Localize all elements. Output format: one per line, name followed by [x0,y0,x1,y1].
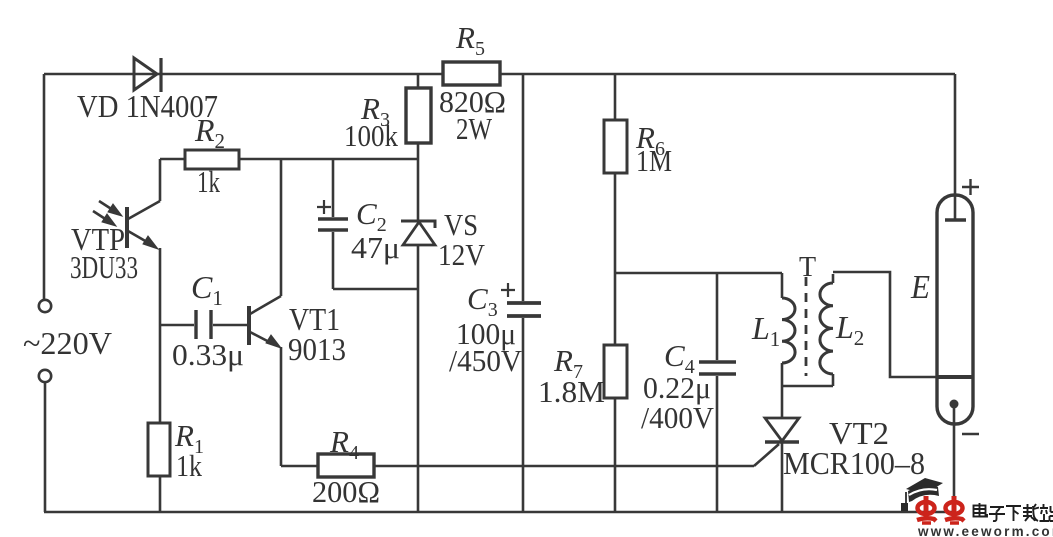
wire VTP collector to R2 [159,159,162,201]
label plus C2 [317,200,331,214]
wire L2 top to lamp [833,272,937,377]
svg-text:9013: 9013 [288,331,346,367]
label C3 [467,281,498,321]
resistor R4 [281,454,374,477]
terminal upper circle [39,300,51,312]
svg-text:C1: C1 [191,269,223,310]
label VD 1N4007 [77,88,218,124]
watermark site name [974,503,1053,521]
label 0.22u [643,370,711,405]
resistor R7 [604,345,627,512]
svg-text:47μ: 47μ [351,230,400,265]
resistor R6 [604,74,627,345]
label minus lamp [962,433,979,435]
label 100k [344,118,398,153]
label plus lamp [962,179,979,195]
wire left rail top [43,74,46,300]
capacitor C4 [699,273,736,512]
svg-text:/450V: /450V [449,343,523,378]
svg-text:T: T [799,252,816,283]
wire R6 bottom to L1 [615,272,782,275]
svg-text:L2: L2 [835,309,864,350]
svg-text:R4: R4 [329,424,359,464]
resistor R3 [406,74,431,159]
label C4 [664,338,695,378]
diode VD [134,58,161,92]
svg-text:100k: 100k [344,118,398,153]
svg-text:200Ω: 200Ω [312,474,380,509]
transistor VT1 [249,296,281,348]
label R2 [194,112,225,153]
label 0.33u [172,337,244,372]
svg-text:www.eeworm.com: www.eeworm.com [917,524,1053,537]
svg-text:E: E [910,269,930,306]
transformer core T [805,277,808,376]
label 47u [351,230,400,265]
resistor R1 [148,325,170,512]
label 820ohm [439,84,506,119]
terminal lower circle [39,370,51,382]
wire top rail left of R5 [44,73,443,76]
label 200ohm [312,474,380,509]
wire VT1 emitter down [280,347,283,466]
label VT2 [829,415,889,451]
svg-text:C3: C3 [467,281,498,321]
label R3 [360,91,390,131]
wire R2 to R3 node [239,158,418,161]
svg-text:R2: R2 [194,112,225,153]
label MCR100-8 [783,445,925,481]
svg-text:~220V: ~220V [23,325,112,361]
light arrow 1 [99,201,122,216]
label C2 [356,196,387,236]
svg-text:1M: 1M [636,143,672,178]
capacitor C2 [318,159,348,289]
svg-text:1.8M: 1.8M [538,374,605,409]
label R4 [329,424,359,464]
light arrow 2 [93,211,116,226]
label ~220V [23,325,112,361]
lamp E tube [937,74,973,512]
label /400V [641,400,715,435]
label L1 [751,310,780,351]
resistor R5 [443,62,500,85]
wire L1 bottom to L2 bottom [782,385,833,388]
phototransistor VTP [127,201,160,249]
wire C2 bottom to VS [333,288,418,291]
watermark chong char 1 [917,496,936,523]
resistor R2 [160,150,239,169]
wire left rail bottom [44,382,47,512]
label R7 [553,343,583,383]
label VS [444,207,478,242]
watermark graduation cap [901,478,943,511]
thyristor VT2 [754,386,799,512]
label R5 [455,20,485,60]
label 1k R1 [176,448,202,483]
label 1M [636,143,672,178]
capacitor C1 [160,310,249,339]
svg-text:/400V: /400V [641,400,715,435]
wire VT1 collector up [280,159,283,296]
wire top rail right of R5 [501,73,955,76]
label /450V [449,343,523,378]
label 100u [456,316,516,351]
watermark url [917,524,1053,537]
svg-text:L1: L1 [751,310,780,351]
label R6 [635,120,665,160]
label E [910,269,930,306]
wire VTP emitter down [159,248,162,325]
svg-text:1k: 1k [176,448,202,483]
label C1 [191,269,223,310]
watermark chong char 2 [945,496,964,523]
label 12V [438,237,486,272]
label plus C3 [501,283,515,297]
svg-text:1k: 1k [197,164,220,199]
svg-text:MCR100–8: MCR100–8 [783,445,925,481]
svg-text:2W: 2W [456,111,493,146]
zener VS [401,159,435,512]
label R1 [174,418,204,458]
wire bottom rail [44,511,954,514]
label VTP [71,221,125,257]
label 1.8M [538,374,605,409]
label L2 [835,309,864,350]
capacitor C3 [507,74,541,512]
label T [799,252,816,283]
svg-text:12V: 12V [438,237,486,272]
wire R4 to VT2 gate [374,465,754,468]
inductor L1 [782,273,795,386]
label 2W [456,111,493,146]
svg-text:3DU33: 3DU33 [70,249,138,285]
label 1k R2 [197,164,220,199]
svg-text:R5: R5 [455,20,485,60]
inductor L2 [820,274,833,386]
svg-text:0.33μ: 0.33μ [172,337,244,372]
label VT1 [289,301,340,337]
label 3DU33 [70,249,138,285]
label 9013 [288,331,346,367]
